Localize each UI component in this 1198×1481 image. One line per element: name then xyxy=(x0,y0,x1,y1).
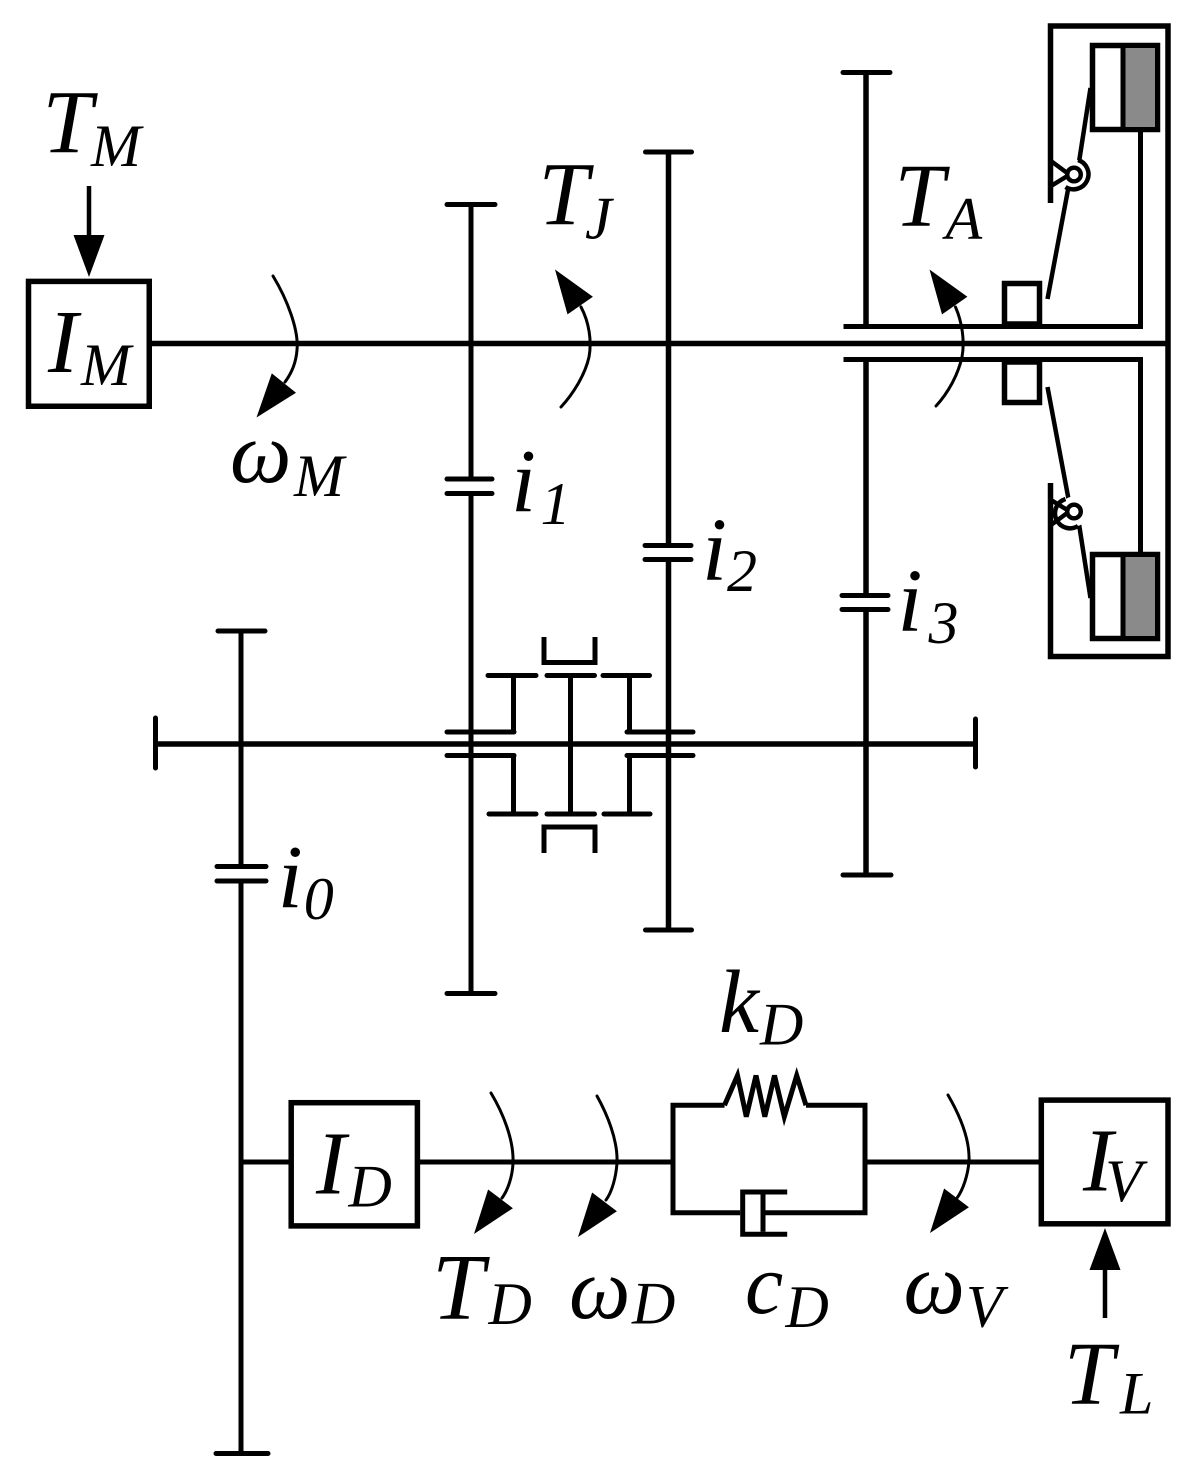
countershaft right end tick xyxy=(973,719,978,767)
svg-text:V: V xyxy=(966,1274,1009,1340)
svg-text:J: J xyxy=(585,186,614,252)
synchronizer upper right stem xyxy=(627,676,632,733)
label i2 xyxy=(702,501,757,605)
svg-text:D: D xyxy=(759,992,803,1058)
svg-text:k: k xyxy=(719,953,761,1052)
clutch lower pivot pin circle xyxy=(1067,505,1081,519)
svg-text:ω: ω xyxy=(569,1240,630,1337)
torsional damper box outline xyxy=(673,1105,865,1212)
synchronizer lower left stem xyxy=(511,756,516,815)
clutch lower friction pad outer box xyxy=(1093,555,1158,639)
svg-text:ω: ω xyxy=(904,1235,965,1332)
label i0 xyxy=(278,828,334,932)
svg-text:V: V xyxy=(1105,1148,1148,1214)
synchronizer lower right gear cap xyxy=(604,812,650,817)
gear2 mesh bar lower xyxy=(627,753,693,758)
synchronizer lower left gear cap xyxy=(489,812,536,817)
svg-text:L: L xyxy=(1119,1361,1153,1427)
damper c_D piston plate xyxy=(761,1195,766,1232)
gear1 mesh bar lower xyxy=(447,753,514,758)
gear i3 bottom tick xyxy=(843,873,891,878)
label I_D xyxy=(315,1115,392,1220)
gear i1 bottom tick xyxy=(447,991,495,996)
label omega_D xyxy=(569,1240,675,1337)
svg-text:I: I xyxy=(47,293,82,392)
svg-text:M: M xyxy=(90,113,144,179)
synchronizer upper right gear cap xyxy=(603,673,650,678)
gear i1 top tick xyxy=(447,202,495,207)
synchronizer upper sleeve bracket xyxy=(544,637,595,663)
svg-text:D: D xyxy=(348,1154,392,1220)
synchronizer lower sleeve bracket xyxy=(544,827,595,853)
gear ratio coupling i0 (double bar) xyxy=(217,867,266,882)
final drive shaft i0 vertical lower part xyxy=(239,882,244,1454)
clutch lower release rod xyxy=(1138,360,1143,557)
gear shaft i3 vertical lower segment xyxy=(863,610,869,875)
svg-text:2: 2 xyxy=(727,538,757,604)
gear shaft i1 vertical upper part xyxy=(469,205,474,481)
svg-text:T: T xyxy=(432,1236,490,1340)
countershaft (layshaft) xyxy=(156,741,976,747)
clutch lower friction pad divider xyxy=(1121,555,1126,639)
synchronizer upper left gear cap xyxy=(488,673,536,678)
synchronizer center stem (through shaft) xyxy=(568,676,573,815)
svg-text:i: i xyxy=(278,828,303,927)
svg-text:ω: ω xyxy=(230,404,291,501)
clutch upper pivot hub arc xyxy=(1059,160,1089,190)
gear i2 bottom tick xyxy=(646,928,692,933)
gear shaft i3 vertical middle segment xyxy=(863,357,869,596)
spring k_D (zigzag on top edge) xyxy=(725,1076,807,1117)
label omega_V xyxy=(904,1235,1010,1340)
gear shaft i3 vertical upper segment xyxy=(863,73,869,330)
driveline shaft damper to I_V xyxy=(865,1160,1041,1165)
inertia block I_V xyxy=(1041,1100,1168,1224)
gear i0 top tick xyxy=(218,629,265,634)
clutch lower friction pad gray lining xyxy=(1126,557,1156,636)
clutch lower release bearing block xyxy=(1005,362,1040,403)
curved arrow T_D xyxy=(474,1093,513,1234)
svg-text:i: i xyxy=(511,432,536,531)
synchronizer lower right stem xyxy=(627,756,632,815)
curved arrow omega_D xyxy=(578,1096,617,1237)
svg-text:T: T xyxy=(895,147,951,246)
synchronizer upper left stem xyxy=(511,676,516,733)
label T_D xyxy=(432,1236,532,1340)
svg-text:M: M xyxy=(80,332,134,398)
clutch upper pivot pin circle xyxy=(1067,168,1081,182)
svg-text:3: 3 xyxy=(928,590,959,656)
svg-text:c: c xyxy=(745,1236,783,1332)
gear1 mesh bar upper xyxy=(447,730,514,735)
svg-text:D: D xyxy=(631,1271,675,1337)
label T_M (engine torque) xyxy=(43,74,145,180)
clutch upper lever (diaphragm finger) xyxy=(1048,88,1091,299)
clutch lower lever (diaphragm finger) xyxy=(1048,387,1091,598)
svg-text:i: i xyxy=(702,501,727,600)
damper c_D cup xyxy=(743,1192,788,1234)
curved arrow T_J (counter-clockwise) xyxy=(555,270,593,408)
gear ratio coupling i2 (double bar) xyxy=(645,546,691,560)
countershaft left end tick xyxy=(153,718,158,768)
gear2 mesh bar upper xyxy=(627,730,693,735)
clutch housing bracket (right) xyxy=(1051,26,1169,657)
clutch upper pivot support wedge xyxy=(1051,161,1067,186)
svg-text:i: i xyxy=(898,552,923,651)
inertia block I_M xyxy=(29,281,150,406)
clutch lower pressure plate line xyxy=(844,357,1144,362)
svg-text:M: M xyxy=(293,443,347,509)
curved arrow T_A (counter-clockwise) xyxy=(930,270,968,407)
clutch upper friction pad gray lining xyxy=(1126,48,1156,127)
clutch upper release bearing block xyxy=(1005,284,1040,325)
label T_A xyxy=(895,147,983,252)
inertia block I_D xyxy=(291,1103,417,1226)
svg-text:1: 1 xyxy=(541,471,571,537)
label I_M xyxy=(47,293,134,398)
svg-text:T: T xyxy=(1064,1325,1120,1424)
label c_D xyxy=(745,1236,829,1340)
svg-text:I: I xyxy=(315,1115,350,1214)
synchronizer lower center gear cap xyxy=(547,812,595,817)
clutch upper friction pad outer box xyxy=(1093,46,1158,130)
label k_D xyxy=(719,953,803,1058)
driveline shaft I_D to damper unit xyxy=(417,1160,675,1165)
synchronizer upper center gear cap xyxy=(547,673,595,678)
driveline shaft i0 to I_D xyxy=(241,1160,291,1165)
curved arrow omega_M (rotation of input shaft) xyxy=(257,276,298,418)
svg-text:0: 0 xyxy=(304,866,334,932)
arrow T_M into I_M xyxy=(74,186,105,277)
label T_L xyxy=(1064,1325,1153,1427)
gear i0 bottom tick xyxy=(216,1451,268,1456)
gear shaft i2 vertical upper part xyxy=(666,152,672,546)
clutch upper pressure plate line xyxy=(844,324,1144,329)
clutch upper friction pad divider xyxy=(1121,46,1126,130)
curved arrow omega_V xyxy=(930,1095,969,1233)
label i1 xyxy=(511,432,571,537)
svg-text:D: D xyxy=(488,1271,532,1337)
gear shaft i1 vertical lower part xyxy=(469,495,474,994)
main input shaft (engine to clutch) xyxy=(152,341,1168,347)
gear ratio coupling i1 (double bar) xyxy=(447,479,492,494)
final drive shaft i0 vertical upper part xyxy=(239,631,244,867)
label omega_M xyxy=(230,404,347,509)
svg-text:D: D xyxy=(785,1274,829,1340)
clutch lower pivot hub arc xyxy=(1059,497,1089,527)
label i3 xyxy=(898,552,959,657)
label I_V xyxy=(1082,1112,1148,1215)
clutch upper release rod xyxy=(1138,130,1143,327)
gear shaft i2 vertical lower part xyxy=(666,560,672,930)
clutch lower pivot support wedge xyxy=(1051,500,1067,525)
arrow T_L into I_V xyxy=(1090,1228,1121,1318)
gear i2 top tick xyxy=(646,150,692,155)
svg-text:A: A xyxy=(942,186,983,252)
gear ratio coupling i3 (double bar) xyxy=(842,596,888,610)
gear i3 top tick xyxy=(843,70,890,75)
label T_J xyxy=(539,146,615,252)
